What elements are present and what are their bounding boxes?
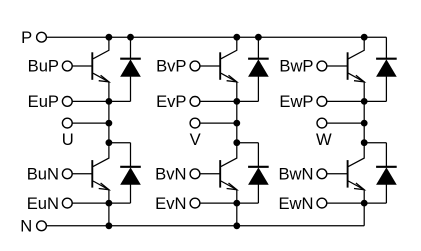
wire EuP lead	[72, 100, 109, 102]
wire upper emitter to node W	[363, 82, 365, 102]
wire phase W mid vertical	[363, 101, 365, 142]
wire phase V mid vertical	[236, 101, 238, 142]
terminal W (phase output)	[316, 118, 332, 149]
wire lower diode anode to emitter node EuN	[109, 202, 131, 204]
wire BvN base lead	[200, 173, 220, 175]
wire BwN base lead	[327, 173, 348, 175]
svg-text:BwP: BwP	[279, 57, 313, 76]
wire EwP lead	[327, 100, 364, 102]
wire BuN base lead	[72, 173, 92, 175]
svg-text:EwN: EwN	[278, 194, 313, 213]
svg-text:BuP: BuP	[28, 57, 59, 76]
wire output W lead	[327, 122, 364, 124]
wire BwP base lead	[327, 65, 348, 67]
terminal U (phase output)	[62, 118, 74, 149]
terminal BwP (base, upper arm)	[279, 57, 326, 76]
wire output V lead	[200, 122, 237, 124]
wire EvP lead	[200, 100, 237, 102]
svg-text:BuN: BuN	[27, 165, 59, 184]
diode lower arm phase U (freewheel)	[120, 143, 141, 203]
wire upper diode anode to emitter node EwP	[364, 100, 386, 102]
wire lower diode cathode link phase W	[364, 142, 386, 144]
wire phase V to N bus	[236, 203, 238, 226]
transistor lower arm phase U	[92, 143, 109, 190]
svg-text:V: V	[190, 130, 201, 149]
junction output node U	[106, 120, 112, 126]
svg-text:P: P	[21, 28, 32, 47]
junction emitter upper node phase W	[361, 99, 367, 105]
transistor lower arm phase V	[220, 143, 237, 190]
wire BuP base lead	[72, 65, 92, 67]
terminal EwN (emitter, lower arm)	[278, 194, 326, 213]
terminal EuP (emitter, upper arm)	[28, 92, 73, 111]
terminal BvP (base, upper arm)	[156, 57, 200, 76]
svg-text:EwP: EwP	[279, 92, 313, 111]
wire lower diode anode to emitter node EvN	[237, 202, 259, 204]
terminal V (phase output)	[190, 118, 201, 149]
junction collector upper phase U on P bus	[106, 34, 112, 40]
wire upper diode anode to emitter node EvP	[237, 100, 259, 102]
wire lower diode cathode link phase U	[109, 142, 131, 144]
junction lower-arm top node phase U	[106, 140, 112, 146]
terminal BuP (base, upper arm)	[28, 57, 73, 76]
svg-text:N: N	[20, 217, 32, 236]
transistor lower arm phase W	[348, 143, 365, 190]
junction diode upper phase V on P bus	[256, 34, 262, 40]
terminal EwP (emitter, upper arm)	[279, 92, 326, 111]
wire upper emitter to node U	[108, 82, 110, 102]
wire EvN lead	[200, 202, 237, 204]
node N (negative bus terminal)	[20, 217, 46, 236]
wire EwN lead	[327, 202, 364, 204]
svg-text:BvN: BvN	[155, 165, 186, 184]
transistor upper arm phase U	[92, 37, 109, 82]
svg-text:BvP: BvP	[156, 57, 186, 76]
terminal EvN (emitter, lower arm)	[155, 194, 200, 213]
wire lower emitter to node EvN	[236, 190, 238, 203]
wire phase U to N bus	[108, 203, 110, 226]
wire lower emitter to node EuN	[108, 190, 110, 203]
junction emitter upper node phase U	[106, 99, 112, 105]
wire lower emitter to node EwN	[363, 190, 365, 203]
junction lower-arm top node phase W	[361, 140, 367, 146]
junction emitter lower node phase W	[361, 200, 367, 206]
svg-text:EuN: EuN	[27, 194, 59, 213]
diode lower arm phase W (freewheel)	[376, 143, 397, 203]
wire upper diode anode to emitter node EuP	[109, 100, 131, 102]
svg-text:U: U	[62, 130, 74, 149]
terminal EuN (emitter, lower arm)	[27, 194, 72, 213]
wire P bus	[46, 36, 386, 38]
diode lower arm phase V (freewheel)	[248, 143, 269, 203]
junction emitter lower node phase U	[106, 200, 112, 206]
wire upper emitter to node V	[236, 82, 238, 102]
junction emitter upper node phase V	[234, 99, 240, 105]
junction collector upper phase V on P bus	[234, 34, 240, 40]
svg-text:BwN: BwN	[278, 165, 313, 184]
junction lower-arm top node phase V	[234, 140, 240, 146]
wire lower diode cathode link phase V	[237, 142, 259, 144]
terminal BvN (base, lower arm)	[155, 165, 200, 184]
diode upper arm phase V (freewheel)	[248, 37, 269, 101]
junction output node V	[234, 120, 240, 126]
wire phase U mid vertical	[108, 101, 110, 142]
terminal BwN (base, lower arm)	[278, 165, 326, 184]
junction collector upper phase W on P bus	[361, 34, 367, 40]
junction diode upper phase U on P bus	[128, 34, 134, 40]
wire N bus	[46, 225, 364, 227]
svg-text:EvN: EvN	[155, 194, 186, 213]
junction output node W	[361, 120, 367, 126]
wire output U lead	[72, 122, 109, 124]
svg-text:W: W	[316, 130, 332, 149]
transistor upper arm phase V	[220, 37, 237, 82]
junction emitter lower node phase V	[234, 200, 240, 206]
node P (positive bus terminal)	[21, 28, 46, 47]
wire EuN lead	[72, 202, 109, 204]
wire phase W to N bus	[363, 203, 365, 226]
terminal BuN (base, lower arm)	[27, 165, 72, 184]
wire BvP base lead	[200, 65, 220, 67]
transistor upper arm phase W	[348, 37, 365, 82]
svg-text:EvP: EvP	[156, 92, 186, 111]
terminal EvP (emitter, upper arm)	[156, 92, 200, 111]
diode upper arm phase W (freewheel)	[376, 37, 397, 101]
diode upper arm phase U (freewheel)	[120, 37, 141, 101]
svg-text:EuP: EuP	[28, 92, 59, 111]
wire lower diode anode to emitter node EwN	[364, 202, 386, 204]
junction phase U on N bus	[106, 223, 112, 229]
junction phase V on N bus	[234, 223, 240, 229]
